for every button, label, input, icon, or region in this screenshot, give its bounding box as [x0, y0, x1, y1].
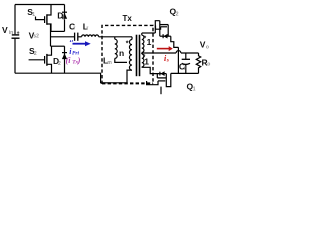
svg-text:2: 2 [176, 11, 179, 17]
svg-text:+: + [17, 30, 20, 36]
svg-text:Tx: Tx [123, 14, 133, 23]
svg-text:2: 2 [58, 61, 61, 67]
svg-text:2: 2 [34, 51, 37, 57]
svg-text:r: r [86, 26, 88, 32]
svg-text:in: in [9, 30, 13, 36]
svg-text:o: o [206, 44, 209, 50]
svg-text:1: 1 [147, 37, 152, 47]
svg-text:): ) [77, 56, 81, 65]
svg-text:s2: s2 [33, 34, 39, 40]
svg-text:1: 1 [62, 16, 65, 22]
svg-text:m: m [107, 60, 112, 66]
svg-text:*: * [126, 40, 129, 47]
svg-text:1: 1 [32, 12, 35, 18]
svg-text:V: V [2, 25, 8, 35]
svg-text:r: r [73, 26, 75, 32]
svg-text:1: 1 [193, 86, 196, 92]
svg-text:1: 1 [144, 56, 149, 66]
svg-text:V: V [200, 40, 206, 50]
svg-text:n: n [119, 48, 124, 58]
svg-text:(i: (i [66, 56, 72, 65]
svg-text:s: s [166, 58, 169, 64]
svg-text:o: o [207, 62, 210, 68]
